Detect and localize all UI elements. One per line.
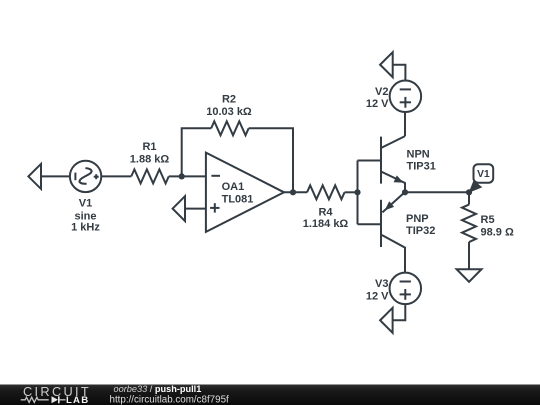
- wire to PNP base: [358, 223, 382, 225]
- resistor R4: [307, 185, 345, 199]
- svg-text:TIP32: TIP32: [406, 225, 435, 237]
- wire to NPN base: [358, 160, 382, 162]
- svg-text:R4: R4: [318, 207, 333, 219]
- svg-text:V1: V1: [79, 197, 92, 209]
- wire ground to op-amp + input: [185, 208, 206, 210]
- ground (V3 bottom): [380, 308, 393, 333]
- voltage source V1 (sine): [70, 161, 101, 192]
- ground (V2 top): [380, 52, 393, 77]
- svg-text:R2: R2: [222, 93, 236, 105]
- svg-text:TIP31: TIP31: [407, 161, 436, 173]
- op-amp plus sign: [210, 203, 219, 212]
- node flag V1 pointer: [469, 180, 483, 193]
- node dot base junction: [354, 189, 360, 195]
- NPN emitter arrow: [394, 175, 404, 182]
- wire feedback left vertical: [182, 128, 211, 176]
- transistor Q2 PNP TIP32: [381, 192, 405, 272]
- svg-text:1 kHz: 1 kHz: [71, 222, 100, 234]
- op-amp OA1 triangle: [206, 153, 284, 232]
- svg-text:V3: V3: [375, 278, 388, 290]
- svg-text:oorbe33 / push-pull1: oorbe33 / push-pull1: [114, 384, 202, 394]
- svg-text:TL081: TL081: [222, 193, 254, 205]
- wire R4 to base node: [345, 191, 358, 193]
- wire R1 to op-amp inverting input: [169, 175, 206, 177]
- svg-text:OA1: OA1: [222, 181, 245, 193]
- node dot inverting input: [179, 173, 185, 179]
- wire V3 bottom to ground: [393, 304, 406, 320]
- footer logo resistor squiggle: [21, 397, 49, 402]
- svg-text:http://circuitlab.com/c8f795f: http://circuitlab.com/c8f795f: [110, 394, 230, 405]
- svg-text:12 V: 12 V: [366, 291, 389, 303]
- resistor R1: [131, 169, 169, 183]
- wire V2 top to ground: [393, 65, 406, 81]
- resistor R2: [211, 121, 249, 135]
- svg-text:12 V: 12 V: [366, 98, 389, 110]
- voltage source V2: [390, 81, 422, 113]
- wire V1 to R1: [101, 175, 131, 177]
- ground (op-amp + input): [173, 196, 185, 221]
- wire op-amp output to R4: [284, 191, 307, 193]
- svg-text:NPN: NPN: [407, 149, 430, 161]
- wire R5 to ground: [468, 242, 470, 269]
- node dot output V1: [466, 189, 472, 195]
- node dot op-amp output: [290, 189, 296, 195]
- ground (left of V1): [28, 164, 41, 189]
- transistor Q1 NPN TIP31: [381, 136, 405, 192]
- svg-text:R5: R5: [481, 214, 495, 226]
- wire NPN collector to V2: [404, 112, 406, 136]
- svg-text:R1: R1: [142, 141, 156, 153]
- wire ground to V1 source: [41, 175, 70, 177]
- footer logo diode: [52, 396, 60, 403]
- svg-text:98.9 Ω: 98.9 Ω: [481, 226, 514, 238]
- svg-text:PNP: PNP: [406, 213, 429, 225]
- svg-text:V1: V1: [477, 169, 490, 180]
- svg-text:sine: sine: [74, 210, 96, 222]
- wire emitters to output node: [405, 191, 469, 193]
- PNP emitter arrow: [385, 201, 394, 210]
- wire output node to R5: [468, 192, 470, 204]
- resistor R5: [462, 205, 476, 243]
- node dot emitter junction: [402, 189, 408, 195]
- op-amp minus sign: [211, 175, 220, 177]
- footer logo diode lead: [60, 399, 66, 401]
- wire feedback right vertical to op-amp output: [249, 128, 293, 192]
- svg-text:10.03 kΩ: 10.03 kΩ: [206, 106, 252, 118]
- svg-text:V2: V2: [375, 86, 388, 98]
- node flag V1 box: [474, 164, 494, 183]
- svg-text:1.184 kΩ: 1.184 kΩ: [303, 218, 349, 230]
- svg-text:1.88 kΩ: 1.88 kΩ: [130, 153, 170, 165]
- footer bar: [0, 385, 540, 405]
- voltage source V3: [390, 273, 422, 305]
- wire base vertical tap: [357, 161, 359, 225]
- svg-text:LAB: LAB: [66, 395, 89, 405]
- ground (below R5): [457, 269, 482, 282]
